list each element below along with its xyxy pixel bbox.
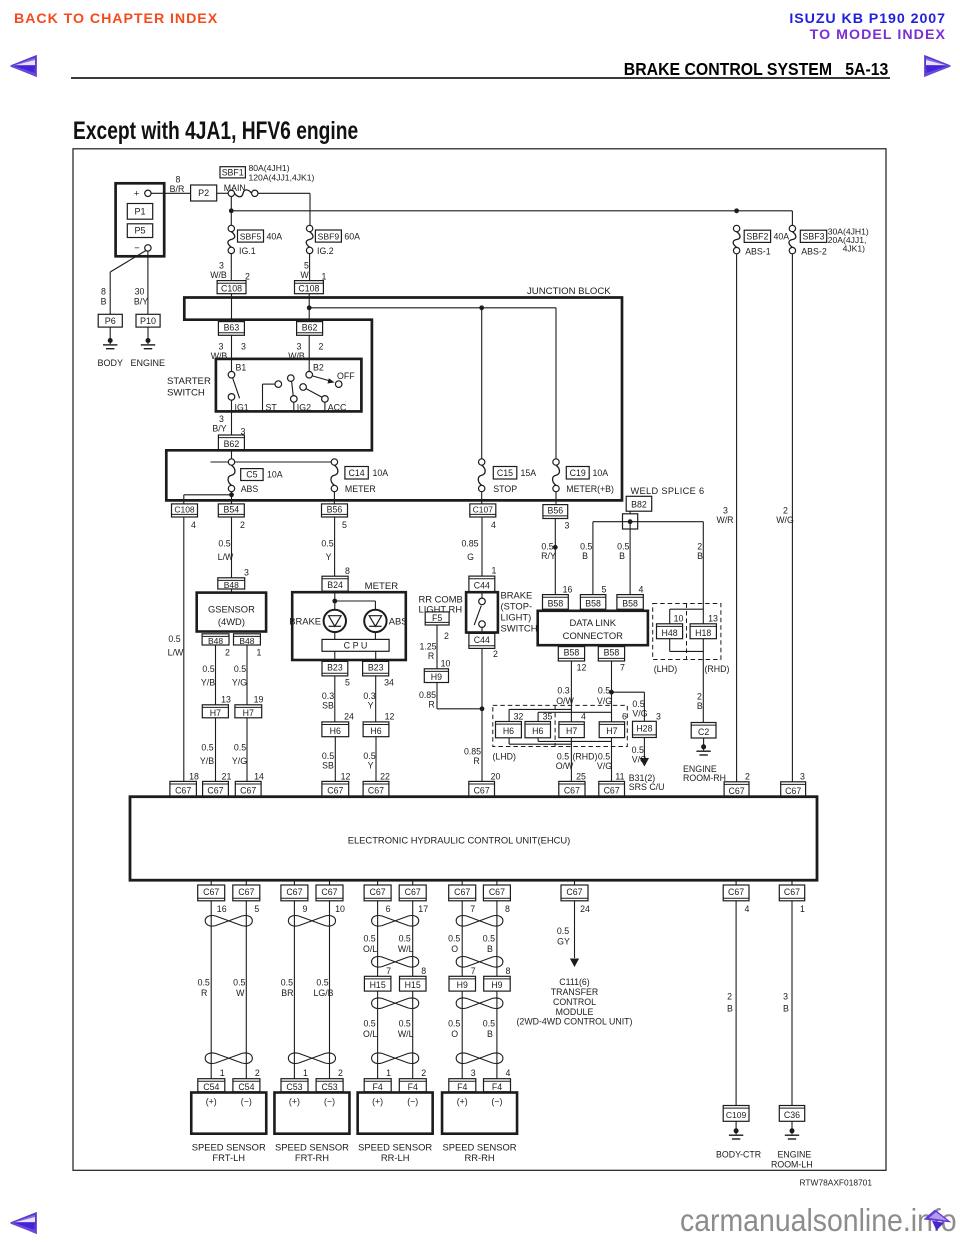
connector H6 pin24 <box>322 722 349 737</box>
twisted pair <box>372 1053 419 1064</box>
svg-text:35: 35 <box>543 712 553 722</box>
label 2 B <box>697 542 703 562</box>
svg-text:60A: 60A <box>344 231 360 241</box>
svg-text:B58: B58 <box>548 598 564 608</box>
connector H18 <box>690 624 716 639</box>
svg-text:2: 2 <box>727 992 732 1002</box>
svg-text:4: 4 <box>639 584 644 594</box>
svg-text:SPEED SENSOR: SPEED SENSOR <box>443 1141 517 1152</box>
ground ENGINE ROOM-RH <box>683 738 726 783</box>
svg-text:CONTROL: CONTROL <box>553 997 596 1007</box>
connector C107 pin4 <box>470 504 496 530</box>
ABS warning lamp <box>364 610 407 632</box>
wire C19 to B56 <box>555 492 557 504</box>
svg-text:4: 4 <box>745 904 750 914</box>
label 0.85 R <box>419 690 436 710</box>
svg-text:24: 24 <box>580 904 590 914</box>
svg-text:5: 5 <box>342 520 347 530</box>
svg-text:V/G: V/G <box>632 754 647 764</box>
svg-text:ENGINE: ENGINE <box>778 1150 812 1160</box>
connector H7 pin4 <box>559 722 584 738</box>
label 0.5 L/W <box>218 539 234 563</box>
label 0.5 O/W <box>556 751 574 771</box>
EHCU electronic hydraulic control unit <box>130 797 817 881</box>
svg-text:H6: H6 <box>532 726 543 736</box>
wire feed corner to SBF3 <box>791 211 793 226</box>
svg-text:B56: B56 <box>547 505 563 515</box>
svg-text:2: 2 <box>240 520 245 530</box>
svg-text:H9: H9 <box>491 980 502 990</box>
svg-text:METER: METER <box>365 581 399 592</box>
svg-text:SBF2: SBF2 <box>746 231 768 241</box>
svg-text:13: 13 <box>221 694 231 704</box>
svg-text:24: 24 <box>344 712 354 722</box>
H6 LHD bypass jog lower <box>509 738 611 744</box>
svg-text:R: R <box>201 988 207 998</box>
svg-text:C108: C108 <box>298 284 319 294</box>
wire 0.5 GY C67 pin24 to transfer control module <box>574 901 576 958</box>
connector P2 <box>191 185 217 201</box>
wire 0.5 L/W C108 pin4 to C67 pin18 <box>183 517 185 781</box>
label C111(6) TRANSFER CONTROL MODULE <box>517 977 633 1027</box>
G sensor box <box>197 593 266 632</box>
label 0.5 O/L upper <box>363 933 377 954</box>
connector H9 pin7 <box>449 976 476 991</box>
wire P2 to SBF1 <box>217 192 228 194</box>
connector H6 pin32 <box>496 722 522 738</box>
svg-text:F4: F4 <box>373 1082 383 1092</box>
svg-text:P6: P6 <box>105 316 116 326</box>
svg-text:30: 30 <box>135 287 145 297</box>
connector C53 pin1 <box>281 1079 308 1092</box>
label 3 B/Y 3 <box>212 414 245 437</box>
starter switch terminal B1 <box>228 363 246 379</box>
svg-text:H9: H9 <box>457 980 468 990</box>
label 0.85 R <box>464 747 481 767</box>
connector H48 <box>657 624 683 639</box>
wire 0.5 L/W B54 to B48 <box>231 517 233 578</box>
twisted pair <box>372 998 419 1009</box>
svg-text:Y/G: Y/G <box>232 756 247 766</box>
svg-text:40A: 40A <box>774 231 790 241</box>
svg-text:(4WD): (4WD) <box>218 616 245 627</box>
label 0.5 Y/B <box>200 743 214 766</box>
svg-text:1: 1 <box>386 1068 391 1078</box>
svg-text:2: 2 <box>421 1068 426 1078</box>
wire C108 pin1 to B62 <box>308 294 310 322</box>
svg-text:C67: C67 <box>203 887 219 897</box>
ground ENGINE <box>131 327 166 368</box>
svg-text:C67: C67 <box>286 887 302 897</box>
wire pair to speed sensor FRT-RH <box>294 901 329 1079</box>
label 3 W/R <box>716 506 733 525</box>
battery - terminal <box>145 245 151 251</box>
connector H9 pin10 <box>424 669 448 683</box>
svg-text:16: 16 <box>217 904 227 914</box>
svg-text:0.5: 0.5 <box>541 542 553 552</box>
svg-text:0.5: 0.5 <box>198 977 210 987</box>
svg-text:FRT-RH: FRT-RH <box>295 1152 329 1163</box>
svg-text:Y/B: Y/B <box>200 756 214 766</box>
label 5 W pin1 <box>300 261 326 282</box>
wire 0.5 Y B56 to B24 <box>334 517 336 576</box>
node IG.2 feed in junction block <box>307 305 312 310</box>
svg-text:3: 3 <box>244 568 249 578</box>
label RR COMB LIGHT RH <box>419 593 463 614</box>
connector P10 <box>136 314 160 327</box>
connector C67 pin5 <box>233 880 260 914</box>
svg-text:7: 7 <box>471 966 476 976</box>
meter box <box>292 592 406 660</box>
svg-text:0.5: 0.5 <box>321 539 333 549</box>
svg-text:0.5: 0.5 <box>483 1019 495 1029</box>
svg-text:C5: C5 <box>246 470 257 480</box>
svg-text:F4: F4 <box>492 1082 502 1092</box>
connector F4 pin1 <box>364 1079 391 1092</box>
svg-text:Y/G: Y/G <box>232 678 247 688</box>
speed sensor FRT-RH <box>274 1093 349 1163</box>
wire 3 B C67 pin1 to C36 <box>791 901 793 1106</box>
svg-text:1: 1 <box>220 1068 225 1078</box>
svg-text:ROOM-RH: ROOM-RH <box>683 773 726 783</box>
connector B63 <box>218 322 244 336</box>
connector C108 pin4 <box>172 504 198 530</box>
svg-text:11: 11 <box>615 771 624 781</box>
svg-text:R: R <box>473 756 479 766</box>
svg-text:1: 1 <box>257 648 262 658</box>
svg-text:ROOM-LH: ROOM-LH <box>771 1160 813 1170</box>
svg-text:O/W: O/W <box>556 696 574 706</box>
svg-text:C67: C67 <box>728 887 744 897</box>
label 0.5 BR <box>281 977 294 998</box>
svg-text:ST: ST <box>266 403 278 413</box>
svg-text:20: 20 <box>491 771 501 781</box>
connector P1 <box>127 204 152 220</box>
wire 0.3 Y B23 to H6 <box>375 676 377 722</box>
starter switch contact IG2 <box>288 375 312 413</box>
svg-text:C15: C15 <box>497 468 513 478</box>
connector H6 pin12 <box>363 722 389 737</box>
wire B62 to starter B2 <box>308 335 310 371</box>
svg-text:C67: C67 <box>489 887 505 897</box>
svg-text:OFF: OFF <box>337 371 355 381</box>
svg-text:W/B: W/B <box>210 270 227 280</box>
label 3 3 W/B left <box>211 342 246 362</box>
label 0.5 Y <box>321 539 333 563</box>
svg-text:3: 3 <box>219 261 224 271</box>
svg-text:W/L: W/L <box>398 1029 414 1039</box>
wire to C19 METER+B fuse <box>555 308 557 459</box>
svg-text:W/G: W/G <box>776 515 794 525</box>
svg-text:18: 18 <box>189 771 199 781</box>
svg-text:B56: B56 <box>327 504 343 514</box>
svg-text:C108: C108 <box>221 284 242 294</box>
svg-text:ELECTRONIC HYDRAULIC CONTROL U: ELECTRONIC HYDRAULIC CONTROL UNIT(EHCU) <box>348 835 571 846</box>
brake switch contacts <box>474 592 485 634</box>
svg-text:B23: B23 <box>368 663 384 673</box>
svg-text:IG2: IG2 <box>297 403 311 413</box>
svg-text:40A: 40A <box>267 231 283 241</box>
label 0.5 R/Y <box>541 542 556 562</box>
label 0.5 V/G <box>632 699 647 718</box>
svg-text:3: 3 <box>783 992 788 1002</box>
connector H9 pin8 <box>484 976 511 991</box>
connector H6 pin35 <box>525 722 551 738</box>
starter switch terminal B2 and OFF arrow <box>306 363 355 388</box>
svg-text:10: 10 <box>674 614 684 624</box>
fuse SBF3 ABS-2 <box>789 225 869 256</box>
weld splice B82 <box>626 496 652 511</box>
svg-text:0.5: 0.5 <box>399 933 411 943</box>
svg-text:0.5: 0.5 <box>483 933 495 943</box>
svg-text:H6: H6 <box>330 726 341 736</box>
svg-text:(RHD): (RHD) <box>705 664 730 674</box>
svg-text:7: 7 <box>386 966 391 976</box>
svg-text:ABS: ABS <box>241 484 259 494</box>
svg-text:32: 32 <box>514 712 524 722</box>
fuse SBF5 IG.1 <box>228 225 282 256</box>
connector F4 pin4 <box>484 1079 511 1092</box>
diagram border frame <box>73 149 886 1171</box>
svg-text:C67: C67 <box>474 785 490 795</box>
svg-text:O: O <box>451 1029 458 1039</box>
ground ENGINE ROOM-LH <box>771 1121 813 1169</box>
svg-text:2: 2 <box>255 1068 260 1078</box>
svg-text:CONNECTOR: CONNECTOR <box>563 630 623 641</box>
svg-text:0.85: 0.85 <box>461 539 478 549</box>
node C5 output <box>229 492 234 497</box>
battery <box>116 183 165 256</box>
svg-text:C67: C67 <box>321 887 337 897</box>
svg-text:3: 3 <box>297 342 302 352</box>
svg-text:B/R: B/R <box>170 184 185 194</box>
wire IG.2 to C108 <box>309 254 311 281</box>
svg-text:C67: C67 <box>370 887 386 897</box>
svg-text:B62: B62 <box>302 322 318 332</box>
svg-text:4: 4 <box>191 520 196 530</box>
connector C67 pin10 <box>316 880 345 914</box>
node STOP fuse tap <box>479 305 484 310</box>
svg-text:C67: C67 <box>327 785 343 795</box>
svg-text:H6: H6 <box>370 726 381 736</box>
svg-text:BRAKE: BRAKE <box>501 590 533 601</box>
svg-text:STARTER: STARTER <box>167 376 211 387</box>
svg-text:F4: F4 <box>408 1082 418 1092</box>
svg-text:TRANSFER: TRANSFER <box>551 987 598 997</box>
svg-text:(+): (+) <box>457 1097 468 1107</box>
svg-text:8: 8 <box>345 566 350 576</box>
svg-text:B: B <box>619 551 625 561</box>
wire 0.5 O/W H7 to C67 pin25 <box>570 738 572 782</box>
connector B58 pin4 <box>617 595 643 610</box>
svg-text:H7: H7 <box>606 726 617 736</box>
svg-text:(2WD-4WD CONTROL UNIT): (2WD-4WD CONTROL UNIT) <box>517 1017 633 1027</box>
svg-text:12: 12 <box>385 712 395 722</box>
wire pair to speed sensor RR-LH <box>378 901 413 1079</box>
svg-text:C109: C109 <box>726 1110 747 1120</box>
svg-text:DATA LINK: DATA LINK <box>570 617 617 628</box>
svg-text:O: O <box>451 944 458 954</box>
svg-text:F4: F4 <box>457 1082 467 1092</box>
svg-text:RTW78AXF018701: RTW78AXF018701 <box>800 1178 873 1188</box>
svg-text:H7: H7 <box>566 726 577 736</box>
connector C108 pin2 <box>217 281 246 294</box>
svg-text:16: 16 <box>563 584 573 594</box>
svg-text:0.5: 0.5 <box>233 977 245 987</box>
wire 0.3 O/W B58 pin12 to H7 pin4 <box>570 661 572 722</box>
svg-text:L/W: L/W <box>168 648 184 658</box>
svg-text:120A(4JJ1,4JK1): 120A(4JJ1,4JK1) <box>249 172 315 182</box>
connector F5 <box>425 612 449 625</box>
svg-text:2: 2 <box>697 692 702 702</box>
wire H28 to SRS arrow <box>643 738 645 759</box>
svg-text:V/G: V/G <box>597 761 612 771</box>
svg-text:(LHD): (LHD) <box>493 751 517 761</box>
wire H18 to C2 <box>702 639 704 723</box>
connector B23 pin5 <box>322 661 350 687</box>
svg-text:V/G: V/G <box>597 696 612 706</box>
wire splice to B58 pin5 and 2B branch <box>593 522 703 595</box>
node battery feed junction <box>229 208 234 213</box>
svg-text:B62: B62 <box>224 439 240 449</box>
label 0.5 Y/B <box>201 664 215 687</box>
wire 0.3 SB B23 to H6 <box>334 676 336 722</box>
svg-text:H15: H15 <box>370 980 386 990</box>
label 2 B <box>727 992 733 1014</box>
svg-text:H7: H7 <box>210 708 221 718</box>
wire 0.5 V/G H7 to C67 pin11 <box>611 738 613 782</box>
svg-text:H18: H18 <box>695 628 711 638</box>
nav arrow back (bottom left) <box>8 1211 38 1235</box>
connector B48 pin1 <box>234 634 262 658</box>
svg-text:P10: P10 <box>140 316 156 326</box>
weld splice node box <box>623 511 638 529</box>
svg-text:C14: C14 <box>349 468 365 478</box>
twisted pair <box>372 916 419 927</box>
svg-text:0.3: 0.3 <box>322 691 334 701</box>
starter switch contact IG1 <box>228 378 249 413</box>
svg-text:8: 8 <box>101 287 106 297</box>
svg-text:C67: C67 <box>566 887 582 897</box>
svg-text:SPEED SENSOR: SPEED SENSOR <box>192 1141 266 1152</box>
svg-text:9: 9 <box>302 904 307 914</box>
speed sensor RR-LH <box>358 1093 433 1163</box>
svg-text:SPEED SENSOR: SPEED SENSOR <box>358 1141 432 1152</box>
svg-text:Y: Y <box>326 552 332 562</box>
svg-text:SBF3: SBF3 <box>802 231 824 241</box>
svg-text:0.5: 0.5 <box>580 542 592 552</box>
label 0.3 Y <box>363 691 375 711</box>
svg-text:B/Y: B/Y <box>134 297 148 307</box>
wire battery feed to SBF2/SBF3 <box>231 210 792 212</box>
svg-text:C44: C44 <box>474 580 490 590</box>
wire 2 B C67 pin4 to C109 <box>735 901 737 1106</box>
svg-text:B: B <box>487 944 493 954</box>
connector F4 pin2 <box>399 1079 426 1092</box>
svg-text:3: 3 <box>565 521 570 531</box>
svg-text:0.5: 0.5 <box>316 977 328 987</box>
label 0.5 O upper <box>448 933 460 954</box>
svg-text:0.5: 0.5 <box>234 664 246 674</box>
svg-text:(−): (−) <box>491 1097 502 1107</box>
wire 0.5 SB H6 to C67 pin12 <box>334 737 336 782</box>
connector B24 <box>322 576 348 591</box>
connector B48 <box>218 578 245 590</box>
ground BODY-CTR <box>716 1121 761 1159</box>
svg-text:SB: SB <box>322 761 334 771</box>
svg-text:C67: C67 <box>785 786 801 796</box>
svg-text:B: B <box>783 1004 789 1014</box>
svg-text:(STOP-: (STOP- <box>501 601 533 612</box>
svg-text:1: 1 <box>492 565 497 575</box>
svg-text:8: 8 <box>505 966 510 976</box>
svg-text:L/W: L/W <box>218 552 234 562</box>
connector B62 upper <box>297 322 323 336</box>
svg-text:3: 3 <box>219 342 224 352</box>
label 0.5 B <box>580 542 592 562</box>
connector C67 pin18 <box>170 781 197 796</box>
svg-text:10A: 10A <box>267 470 283 480</box>
svg-text:10A: 10A <box>373 468 389 478</box>
twisted pair <box>456 916 503 927</box>
svg-text:B: B <box>582 551 588 561</box>
label 0.5 B <box>617 542 629 562</box>
connector C2 <box>691 723 716 739</box>
svg-text:0.85: 0.85 <box>464 747 481 757</box>
label 0.5 Y/G <box>232 664 247 687</box>
connector C54 pin2 <box>233 1079 260 1092</box>
svg-text:2: 2 <box>338 1068 343 1078</box>
label 8 B <box>101 287 107 307</box>
svg-text:P2: P2 <box>198 188 209 198</box>
svg-text:14: 14 <box>254 771 264 781</box>
connector B54 pin2 <box>218 504 245 530</box>
svg-text:W: W <box>236 988 245 998</box>
svg-text:0.5: 0.5 <box>598 751 610 761</box>
svg-text:1: 1 <box>303 1068 308 1078</box>
svg-text:B58: B58 <box>622 598 638 608</box>
connector C67 pin2 <box>724 782 749 797</box>
svg-text:C P U: C P U <box>344 640 368 650</box>
svg-text:8: 8 <box>505 904 510 914</box>
svg-text:JUNCTION BLOCK: JUNCTION BLOCK <box>527 286 611 297</box>
fuse C14 METER <box>331 459 388 494</box>
connector C53 pin2 <box>316 1079 343 1092</box>
svg-text:1: 1 <box>800 904 805 914</box>
svg-text:0.5: 0.5 <box>448 933 460 943</box>
svg-text:GSENSOR: GSENSOR <box>208 604 255 615</box>
svg-text:O/W: O/W <box>556 761 574 771</box>
label 0.5 V/G <box>632 745 647 764</box>
speed sensor FRT-LH <box>191 1093 266 1163</box>
svg-text:0.5: 0.5 <box>281 977 293 987</box>
svg-text:FRT-LH: FRT-LH <box>212 1152 245 1163</box>
svg-text:B23: B23 <box>327 663 343 673</box>
svg-text:SRS C/U: SRS C/U <box>629 782 665 792</box>
svg-text:B1: B1 <box>236 363 247 373</box>
svg-text:0.5: 0.5 <box>363 751 375 761</box>
svg-text:WELD SPLICE 6: WELD SPLICE 6 <box>631 486 705 496</box>
label 0.5 SB <box>322 751 334 771</box>
twisted pair <box>288 916 335 927</box>
H6 LHD bypass jog upper <box>509 709 611 721</box>
svg-text:(RHD): (RHD) <box>573 751 598 761</box>
svg-text:B58: B58 <box>585 598 601 608</box>
svg-text:0.3: 0.3 <box>557 685 569 695</box>
svg-text:0.5: 0.5 <box>399 1019 411 1029</box>
svg-text:10: 10 <box>441 658 451 668</box>
svg-text:METER: METER <box>345 484 376 494</box>
